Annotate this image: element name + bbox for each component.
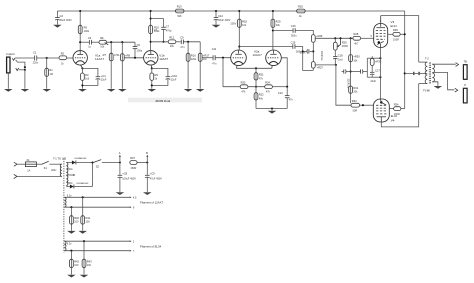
svg-text:150R: 150R [130,167,136,170]
svg-text:R41: R41 [86,216,91,220]
capacitor bypass right [351,69,368,73]
op-amp V1 triode [73,51,104,68]
capacitor C9 [180,35,185,48]
resistor R42 [70,251,80,275]
node [81,84,83,86]
svg-text:C11: C11 [212,47,217,51]
resistor R19 anode load V4b [271,11,281,50]
capacitor C16 coupling top [273,24,313,37]
svg-text:47n: 47n [289,98,294,101]
svg-text:C16: C16 [291,24,296,28]
wire HV centre tap arrow [66,174,75,176]
svg-text:R19: R19 [276,19,281,23]
wire [361,37,374,39]
resistor R22 divider [254,87,264,109]
wire B+ rail drop right [404,11,406,109]
svg-text:V4: V4 [391,119,395,123]
svg-text:100: 100 [86,221,91,224]
node V4a anode junction [238,45,240,47]
transistor V5 pentode EL34 bottom [373,99,397,123]
switch S1 [42,161,62,170]
capacitor C11 [212,47,217,66]
connector J1 input jack [7,57,10,73]
svg-text:TV-8K: TV-8K [423,89,430,93]
svg-text:C1: C1 [33,51,37,55]
svg-text:R2: R2 [61,51,65,55]
svg-text:B: B [146,151,148,155]
capacitor C6 [133,42,143,58]
wire [17,175,62,177]
svg-text:47n: 47n [180,46,185,49]
ground [78,89,87,92]
ground [434,86,443,89]
resistor R36 screen [388,28,405,42]
ground [212,25,221,28]
svg-text:C3: C3 [88,36,92,40]
ground [118,89,127,92]
wire [17,163,25,165]
resistor R31 [346,79,358,94]
svg-text:200V: 200V [230,22,236,25]
svg-text:R3: R3 [85,73,89,77]
node shunt junction [24,66,26,68]
svg-text:1A: 1A [27,170,30,173]
svg-text:220n: 220n [33,61,39,64]
diode D2 [66,182,92,189]
wire [137,162,147,164]
svg-text:100: 100 [87,264,92,267]
ground [67,231,76,234]
wire [91,41,99,43]
node polarity marks [413,72,420,76]
svg-text:+R27: +R27 [317,66,324,70]
ground [184,89,193,92]
node [271,107,273,109]
capacitor C17 [370,68,380,82]
svg-text:R29: R29 [342,40,347,44]
svg-text:R20: R20 [241,80,246,84]
svg-text:+R35: +R35 [375,59,382,63]
wire heater1 bottom [64,206,129,208]
svg-text:C12: C12 [218,14,223,18]
svg-text:T-1 TG 145: T-1 TG 145 [53,157,67,161]
svg-text:100R: 100R [393,39,399,42]
svg-text:100uF 450V: 100uF 450V [122,177,136,180]
wire V4b grid [281,58,287,87]
svg-text:500n: 500n [291,35,297,38]
wire heater2 arrow [130,240,132,242]
svg-text:C7: C7 [166,25,170,29]
potentiometer R29 [333,38,348,50]
svg-text:V3: V3 [391,20,395,24]
svg-text:J0009 Dual: J0009 Dual [155,99,171,103]
svg-text:R13: R13 [177,5,182,9]
svg-text:C13: C13 [278,91,283,95]
svg-text:+C4: +C4 [101,74,106,78]
capacitor C9b [145,163,162,193]
wire to C11 [202,57,213,59]
transformer core [63,159,65,253]
capacitor bypass left [342,69,351,73]
svg-text:R22: R22 [259,93,264,97]
node [215,10,217,12]
resistor R9 [150,73,158,81]
connector terminal T4 [463,83,467,103]
svg-text:Input1: Input1 [6,52,15,56]
wire bottom splitter [256,108,287,110]
node [238,10,240,12]
resistor R35 cathode network [367,56,382,77]
svg-text:S2: S2 [96,165,100,169]
resistor R10 anode load V2 [149,11,160,51]
svg-text:R7: R7 [103,53,107,57]
svg-text:R37: R37 [130,156,135,160]
svg-text:C18: C18 [338,53,343,57]
switch S2 [93,160,120,169]
resistor R8 [120,42,130,89]
wire cathode join [237,67,272,69]
svg-text:R36: R36 [393,28,398,32]
ground [21,89,30,92]
wire secondary tap [432,73,454,90]
node B+ rail top [57,10,404,12]
svg-text:C6: C6 [137,43,141,47]
node A junction [46,57,48,59]
svg-text:220R 1w: 220R 1w [346,79,349,89]
connector plug top [456,63,459,67]
node [255,86,257,88]
node C7 tap [150,18,152,20]
node [151,84,153,86]
svg-text:+R17: +R17 [203,53,210,57]
svg-text:50R: 50R [353,109,358,112]
wire heater2 top [64,240,129,242]
svg-text:6.3v: 6.3v [67,242,72,245]
svg-text:+C9: +C9 [150,172,155,176]
transistor V3 pentode EL34 top [371,16,398,48]
svg-text:+C8: +C8 [122,172,127,176]
wire [272,86,287,88]
transformer heater winding 2 [64,241,66,251]
node [82,196,84,198]
capacitor C12 [214,11,231,25]
wire drop to R20 [223,58,240,87]
wire [248,86,265,88]
wire heater2 bottom [64,250,129,252]
wire V3 grid feed [315,37,353,39]
wire V3 cathode chain [379,48,381,100]
resistor R20 [240,80,248,93]
node [70,250,72,252]
capacitor C10 [166,74,178,82]
wire [37,57,59,59]
wire centre tap [405,72,428,74]
svg-text:4,5: 4,5 [133,197,137,200]
wire bias run lower [315,64,336,66]
resistor R28 grid stopper [353,32,361,46]
connector terminal T8 [463,60,467,80]
svg-text:47uF 450V: 47uF 450V [150,177,163,180]
svg-text:1k5: 1k5 [85,78,90,81]
resistor R1 [45,68,53,76]
node [339,37,341,39]
resistor R27 preset [311,51,323,71]
svg-text:C15: C15 [291,40,296,44]
ground [80,275,89,278]
ground [148,89,157,92]
svg-text:+R8: +R8 [125,53,130,57]
resistor R25 rail [297,5,306,18]
resistor R41 [81,197,91,230]
svg-text:12AX7: 12AX7 [159,57,168,61]
resistor R13 rail [175,5,184,18]
svg-text:100: 100 [74,264,79,267]
node net B marker [146,151,148,163]
wire [176,41,181,43]
node V2 cathode junction [151,67,153,69]
node [222,57,224,59]
svg-text:1M: 1M [203,58,206,61]
resistor R43 [82,241,92,274]
node V1 cathode junction [81,67,83,69]
svg-text:R28: R28 [354,32,359,36]
node [79,10,81,12]
resistor R18 anode load V4a [230,11,247,50]
svg-text:1M: 1M [49,73,52,76]
svg-text:A: A [119,151,121,155]
wire jack sleeve to ground [7,73,9,89]
wire [36,163,41,165]
node [350,70,352,72]
svg-text:200R: 200R [342,45,348,48]
capacitor C4 [96,74,107,82]
resistor R17 [198,42,210,89]
capacitor C7 [151,19,172,42]
resistor R37 [130,156,137,170]
wire shunt to bus [19,69,25,71]
wire heater2 arrow2 [130,250,132,252]
svg-text:33uF 400V: 33uF 400V [60,19,73,22]
svg-text:TB: TB [464,60,468,64]
transformer HV secondary [66,163,68,186]
wire V5 cathode to primary bottom [381,84,418,127]
wire [271,109,273,111]
svg-text:EL34: EL34 [391,24,398,28]
resistor R24 [265,80,273,93]
svg-text:R21: R21 [259,73,264,77]
svg-text:R42: R42 [74,259,79,263]
node V2 anode junction [150,41,152,43]
node [110,41,112,43]
capacitor C18 [333,50,343,65]
resistor R33 [351,99,360,113]
resistor R5 anode load V1 [78,11,89,51]
node [312,50,314,52]
wire to ground [24,70,26,89]
node [162,41,164,43]
svg-text:100k: 100k [84,30,90,33]
svg-text:6D4/ARG0F: 6D4/ARG0F [75,157,88,160]
wire V2 grid [124,57,143,59]
ground [107,89,116,92]
svg-text:R31: R31 [353,86,358,90]
capacitor C1 [33,51,39,65]
svg-text:470k: 470k [114,54,120,57]
svg-text:R25: R25 [298,5,303,9]
svg-text:C17: C17 [375,68,380,72]
svg-text:220v: 220v [51,169,57,172]
svg-text:R24: R24 [265,80,270,84]
node [83,240,85,242]
svg-text:+C10: +C10 [171,74,178,78]
transformer heater winding 1 [64,197,66,207]
resistor R6 [99,36,108,49]
svg-text:100: 100 [74,221,79,224]
ground [116,192,125,195]
node [350,37,352,39]
resistor R3 [81,73,90,81]
ground [196,89,205,92]
capacitor C15 coupling bottom [239,40,313,70]
svg-text:22uF: 22uF [101,78,107,81]
capacitor C3 [88,36,92,49]
svg-text:Filament of 12AX7: Filament of 12AX7 [140,200,163,204]
wire [80,41,89,43]
wire secondary common to ground [432,82,438,86]
connector AC neutral [14,174,17,178]
wire diode join [92,163,94,187]
node [70,206,72,208]
wire cathode loop [82,68,98,76]
resistor R34 screen [389,102,404,116]
node [91,161,93,163]
connector AC live [14,162,17,166]
svg-text:C2: C2 [60,14,64,18]
node V1 anode junction [79,41,81,43]
svg-text:100R: 100R [394,113,400,116]
svg-text:+R30: +R30 [353,55,360,59]
op-amp V4a triode splitter [231,50,247,68]
node [146,161,148,163]
wire input signal [15,57,34,59]
resistor R7 [103,42,120,89]
svg-text:R40: R40 [74,216,79,220]
ground [78,231,87,234]
resistor R2 [59,51,67,65]
svg-text:100R 1w: 100R 1w [320,51,323,61]
node [334,37,336,39]
node [121,41,123,43]
svg-text:R6: R6 [100,36,104,40]
node [187,41,189,43]
svg-text:R12: R12 [169,35,174,39]
wire [183,41,200,43]
wire R1 drop [46,58,48,89]
ground [268,111,277,114]
svg-text:R1: R1 [49,68,53,72]
svg-text:T-2: T-2 [425,56,429,60]
svg-text:4k7: 4k7 [354,43,359,46]
ground [42,89,51,92]
svg-text:33uF 400V: 33uF 400V [218,19,231,22]
diode D1 [66,157,92,164]
node [150,10,152,12]
wire to V1 grid [67,57,73,59]
svg-text:R34: R34 [394,102,399,106]
svg-text:Gnd: Gnd [338,59,343,62]
wire [151,41,169,43]
wire heater1 arrow2 [130,206,132,208]
node [286,86,288,88]
resistor R26 grid leak top [300,34,323,54]
annotation grey box [128,98,202,103]
node [134,57,136,59]
node net A marker [119,151,121,163]
resistor R21 tail [254,68,264,86]
capacitor C8 [118,163,137,193]
resistor R12 [168,35,176,48]
svg-text:290v: 290v [67,168,73,171]
wire [107,41,135,43]
capacitor C13 [278,87,294,109]
svg-text:R33: R33 [352,99,357,103]
op-amp V2 triode [144,51,169,68]
svg-text:12AX7: 12AX7 [95,57,104,61]
capacitor C2 [55,11,72,25]
ground [67,275,76,278]
op-amp V4b triode splitter [253,49,282,68]
ground [4,89,13,92]
connector plug bottom [455,88,458,92]
svg-text:+R26: +R26 [316,34,323,38]
svg-text:Filament of EL34: Filament of EL34 [140,244,162,248]
wire V5 grid [360,104,374,106]
wire heater1 arrow [130,196,132,198]
ground [53,25,62,28]
svg-text:R16: R16 [191,53,196,57]
svg-text:5k6: 5k6 [177,15,182,18]
svg-text:22uF: 22uF [370,80,376,83]
svg-text:R5: R5 [84,25,88,29]
wire secondary top [432,63,456,65]
resistor R30 [349,38,361,103]
svg-text:6D2/ARG0F: 6D2/ARG0F [77,182,90,185]
svg-text:100p: 100p [137,49,143,52]
node V4b anode junction [272,29,274,31]
svg-text:R18: R18 [242,19,247,23]
resistor R16 [186,42,197,89]
wire R26 bottom [312,42,314,61]
node [404,33,406,35]
node [272,10,274,12]
svg-text:47n: 47n [212,63,217,66]
node [379,76,381,78]
resistor R40 [70,207,80,231]
transformer TR2 output [419,56,435,92]
wire shunt arm [16,60,25,70]
svg-text:R9: R9 [155,73,159,77]
wire V3 anode to primary top [381,16,419,63]
capacitor bias electrolytic [302,49,314,53]
node [362,104,364,106]
wire heater1 top [64,196,129,198]
svg-text:220k: 220k [191,58,197,61]
node [255,67,257,69]
svg-text:R43: R43 [87,259,92,263]
switch jack tip contact [12,58,15,60]
node [119,161,121,163]
svg-text:22uF: 22uF [171,78,177,81]
